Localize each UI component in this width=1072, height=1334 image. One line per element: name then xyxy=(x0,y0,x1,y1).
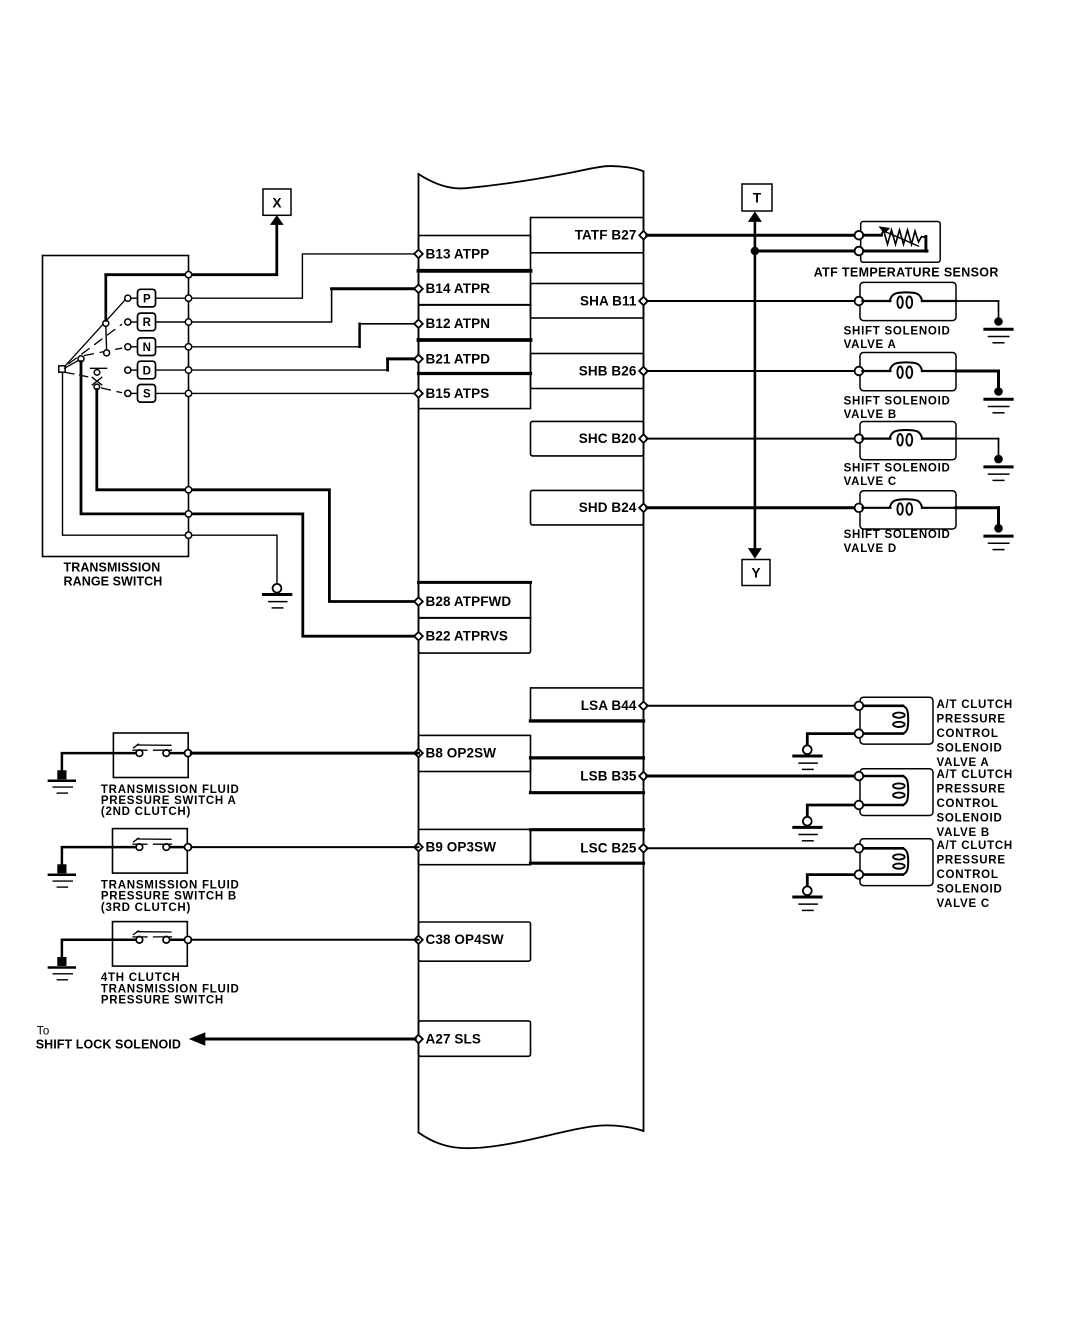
wire - switch left lead to ground xyxy=(62,847,136,864)
wire - pivot to pin B22 ATPRVS (thick) xyxy=(81,362,415,637)
callout box X xyxy=(263,189,291,215)
svg-text:VALVE D: VALVE D xyxy=(844,543,897,555)
solenoid coil A xyxy=(862,300,890,302)
svg-text:SHIFT SOLENOID: SHIFT SOLENOID xyxy=(844,529,951,541)
wire - coil B to ground xyxy=(997,371,1000,388)
wire - LSA B44 to pressure control solenoid A xyxy=(647,705,856,707)
svg-text:SHD B24: SHD B24 xyxy=(579,500,637,515)
arrowhead up into X xyxy=(270,215,284,225)
solenoid pin top xyxy=(855,844,864,853)
wire - sensor internal return xyxy=(924,237,927,252)
ground - shift solenoid valve D xyxy=(994,524,1003,533)
wire - switch to connector xyxy=(191,752,418,755)
wire - SHD B24 to shift solenoid valve D xyxy=(647,506,856,509)
D-row cross mark xyxy=(92,377,101,385)
dashed arm toward D pivot xyxy=(66,373,93,378)
(2nd clutch) xyxy=(113,733,188,778)
D-row lower contact xyxy=(94,384,100,390)
wire - SHC B20 to shift solenoid valve C xyxy=(647,438,856,440)
pin-box stack B28/B22 xyxy=(419,582,531,653)
svg-text:LSC B25: LSC B25 xyxy=(580,841,637,856)
pin box C38 OP4SW xyxy=(419,922,531,961)
range switch edge terminals xyxy=(185,272,191,278)
svg-text:VALVE A: VALVE A xyxy=(844,339,897,351)
pin box A27 SLS xyxy=(419,1021,531,1056)
sensor pin top xyxy=(855,231,864,240)
pin B15 ATPS xyxy=(414,389,423,398)
solenoid pin xyxy=(855,297,864,306)
svg-text:SHIFT SOLENOID: SHIFT SOLENOID xyxy=(844,395,951,407)
pin LSC B25 xyxy=(639,844,648,853)
solenoid coil A (vertical) xyxy=(862,704,903,707)
solenoid coil C xyxy=(862,438,890,440)
contact P xyxy=(125,295,131,301)
pin box LSA B44 bottom thick border xyxy=(531,719,644,722)
PCM connector band right edge xyxy=(643,171,645,1131)
ground - shift solenoid valve C xyxy=(994,455,1003,464)
pin SHB B26 xyxy=(639,367,648,376)
switch contacts xyxy=(170,752,187,755)
wire - coil D to ground xyxy=(997,508,1000,525)
svg-text:B14 ATPR: B14 ATPR xyxy=(426,281,491,296)
svg-text:PRESSURE: PRESSURE xyxy=(937,855,1006,867)
sensor pin bottom xyxy=(855,247,864,256)
shift solenoid valve B box xyxy=(860,353,956,391)
wire - switch to connector xyxy=(191,846,418,848)
solenoid pin bottom xyxy=(855,729,864,738)
contact D xyxy=(125,367,131,373)
ground - range switch common xyxy=(273,584,282,593)
arrowhead up into T xyxy=(748,211,762,222)
pin LSB B35 xyxy=(639,772,648,781)
solenoid coil B xyxy=(862,370,890,372)
svg-text:PRESSURE: PRESSURE xyxy=(937,713,1006,725)
wire - SHA B11 to shift solenoid valve A xyxy=(647,300,856,302)
pin SHD B24 xyxy=(639,504,648,513)
wire - P contact to pin B13 ATPP xyxy=(156,254,416,298)
svg-text:VALVE A: VALVE A xyxy=(937,757,990,769)
wire - A27 SLS to shift lock solenoid (thick) xyxy=(205,1038,416,1041)
wire - D contact to pin B21 ATPD xyxy=(156,369,388,371)
svg-text:To: To xyxy=(37,1026,50,1038)
shift solenoid valve C box xyxy=(860,422,956,460)
solenoid pin xyxy=(855,434,864,443)
pivot contact xyxy=(78,356,84,362)
range switch position box N xyxy=(138,338,156,356)
svg-text:CONTROL: CONTROL xyxy=(937,869,999,881)
ground - pressure control solenoid C xyxy=(803,886,812,895)
svg-text:SHIFT SOLENOID: SHIFT SOLENOID xyxy=(844,462,951,474)
arrowhead down into Y xyxy=(748,548,762,559)
pin box LSB B35 thick borders xyxy=(531,756,644,759)
switch arm to lower pivot xyxy=(65,360,79,368)
wire - coil C to ground xyxy=(998,439,1000,456)
switch output pin xyxy=(185,936,192,943)
svg-text:ATF TEMPERATURE SENSOR: ATF TEMPERATURE SENSOR xyxy=(814,266,999,280)
svg-text:S: S xyxy=(143,389,151,401)
switch output pin xyxy=(185,844,192,851)
ground xyxy=(57,957,66,966)
dashed arm toward R xyxy=(69,325,122,364)
svg-text:SHIFT LOCK SOLENOID: SHIFT LOCK SOLENOID xyxy=(36,1038,181,1052)
wire - TATF B27 to sensor (thick) xyxy=(647,234,856,237)
ATF temperature sensor box xyxy=(861,222,941,263)
D-row pivot contact xyxy=(94,370,100,376)
svg-text:SOLENOID: SOLENOID xyxy=(937,884,1003,896)
svg-text:TATF B27: TATF B27 xyxy=(575,228,637,243)
wire - solenoid A low side to ground xyxy=(807,734,855,746)
pin SHC B20 xyxy=(639,434,648,443)
wire - switch to connector xyxy=(191,939,418,941)
wire - common pole to ground xyxy=(63,372,278,584)
pin-box separator xyxy=(419,372,531,375)
svg-text:SOLENOID: SOLENOID xyxy=(937,813,1003,825)
pin box B9 OP3SW xyxy=(419,829,531,864)
svg-text:B9 OP3SW: B9 OP3SW xyxy=(426,840,497,855)
contact S xyxy=(125,390,131,396)
pin-box separator xyxy=(419,304,531,306)
ground - pressure control solenoid A xyxy=(803,745,812,754)
svg-text:RANGE SWITCH: RANGE SWITCH xyxy=(64,575,163,589)
switch output pin xyxy=(185,750,192,757)
thermistor resistor zigzag xyxy=(881,230,926,244)
range switch position box P xyxy=(138,289,156,307)
svg-text:P: P xyxy=(143,293,151,305)
wire - switch left lead to ground xyxy=(62,753,136,770)
B28 box top thick border xyxy=(419,581,531,584)
wire - switch left lead to ground xyxy=(62,940,136,957)
svg-text:TRANSMISSION FLUID: TRANSMISSION FLUID xyxy=(101,983,240,995)
pin box LSA B44 xyxy=(531,688,644,721)
wire - sensor return (thick) xyxy=(757,250,856,253)
contact N xyxy=(125,344,131,350)
svg-text:B21 ATPD: B21 ATPD xyxy=(426,351,491,366)
svg-text:Y: Y xyxy=(751,566,760,581)
wire - thick vertical from R pivot to top wire xyxy=(104,275,107,321)
svg-text:VALVE C: VALVE C xyxy=(937,898,990,910)
svg-text:SHB B26: SHB B26 xyxy=(579,363,637,378)
shift solenoid valve A box xyxy=(860,282,956,320)
shift solenoid valve D box xyxy=(860,491,956,529)
pin B13 ATPP xyxy=(414,250,423,259)
arrowhead to shift lock solenoid xyxy=(189,1032,206,1046)
wire - sensor return vertical T to Y xyxy=(754,223,757,548)
pin box SHA B11 xyxy=(531,284,644,319)
pin box SHC B20 xyxy=(531,421,644,456)
switch common pole xyxy=(59,366,65,372)
svg-text:D: D xyxy=(143,365,151,377)
D-row pivot tee bar xyxy=(91,367,107,369)
(3rd clutch) xyxy=(113,829,188,874)
pin LSA B44 xyxy=(639,702,648,711)
pin box B8 OP2SW xyxy=(419,735,531,771)
pin-box separator (thick) xyxy=(419,269,531,273)
dashed arm toward S xyxy=(102,388,122,393)
svg-text:PRESSURE SWITCH A: PRESSURE SWITCH A xyxy=(101,795,237,807)
svg-text:SOLENOID: SOLENOID xyxy=(937,742,1003,754)
wire - S contact to pin B15 ATPS xyxy=(156,392,416,394)
N-row pivot contact xyxy=(104,350,110,356)
ground xyxy=(57,864,66,873)
wire - LSC B25 to pressure control solenoid C xyxy=(647,847,856,849)
solenoid pin bottom xyxy=(855,801,864,810)
pin box LSB B35 xyxy=(531,758,644,793)
solenoid coil C (vertical) xyxy=(862,847,903,850)
solenoid pin bottom xyxy=(855,870,864,879)
pin box TATF B27 xyxy=(531,218,644,253)
solenoid pin xyxy=(855,367,864,376)
svg-text:X: X xyxy=(272,195,281,210)
svg-text:VALVE B: VALVE B xyxy=(937,827,990,839)
solenoid pin xyxy=(855,504,864,513)
pin A27 SLS xyxy=(414,1035,423,1044)
ground - shift solenoid valve A xyxy=(994,317,1003,326)
junction dot on return line xyxy=(751,247,759,255)
svg-text:B13 ATPP: B13 ATPP xyxy=(426,246,490,261)
svg-text:PRESSURE: PRESSURE xyxy=(937,784,1006,796)
wire - coil A to ground xyxy=(998,301,1000,318)
contact R xyxy=(125,319,131,325)
pressure switch xyxy=(113,922,188,967)
wire - R pivot to N pivot xyxy=(105,326,108,350)
svg-text:TRANSMISSION: TRANSMISSION xyxy=(64,561,161,575)
A/T clutch pressure control solenoid valve C box xyxy=(860,839,933,886)
callout box Y xyxy=(742,560,770,586)
solenoid coil D xyxy=(862,507,890,509)
wire - solenoid B low side to ground xyxy=(807,805,855,817)
wire - R contact to pin B14 ATPR xyxy=(156,290,332,322)
pin box SHB B26 xyxy=(531,354,644,389)
pin B28 ATPFWD xyxy=(414,597,423,606)
svg-text:CONTROL: CONTROL xyxy=(937,728,999,740)
svg-text:B12 ATPN: B12 ATPN xyxy=(426,316,491,331)
callout box T xyxy=(742,184,772,211)
R-row pivot contact xyxy=(103,320,109,326)
svg-text:A/T CLUTCH: A/T CLUTCH xyxy=(937,769,1014,781)
wire - X circuit (thick) from R pivot top to X box xyxy=(106,226,277,275)
wire - LSB B35 to pressure control solenoid B xyxy=(647,775,856,778)
pin B22 ATPRVS xyxy=(414,632,423,641)
A/T clutch pressure control solenoid valve A box xyxy=(860,697,933,744)
pin B8 OP2SW xyxy=(414,749,423,758)
wire - N contact to pin B12 ATPN xyxy=(156,346,360,348)
svg-text:VALVE B: VALVE B xyxy=(844,409,897,421)
ground - pressure control solenoid B xyxy=(803,817,812,826)
svg-text:B8 OP2SW: B8 OP2SW xyxy=(426,746,497,761)
svg-text:B15 ATPS: B15 ATPS xyxy=(426,386,490,401)
PCM connector band left edge xyxy=(418,174,420,1133)
pin-box separator (thick) xyxy=(419,338,531,342)
range switch position box S xyxy=(138,385,156,403)
PCM band broken-edge bottom wave xyxy=(419,1125,644,1148)
thermistor arrow xyxy=(885,232,919,247)
svg-text:SHIFT SOLENOID: SHIFT SOLENOID xyxy=(844,325,951,337)
wire - SHB B26 to shift solenoid valve B xyxy=(647,370,856,372)
svg-text:(2ND CLUTCH): (2ND CLUTCH) xyxy=(101,806,191,818)
A/T clutch pressure control solenoid valve B box xyxy=(860,769,933,816)
solenoid coil B (vertical) xyxy=(862,775,903,778)
pin B14 ATPR xyxy=(414,285,423,294)
svg-text:TRANSMISSION FLUID: TRANSMISSION FLUID xyxy=(101,784,240,796)
svg-text:T: T xyxy=(753,191,762,206)
wire - D pivot to pin B28 ATPFWD (thick) xyxy=(97,390,415,602)
solenoid pin top xyxy=(855,702,864,711)
pin TATF B27 xyxy=(639,231,648,240)
pin SHA B11 xyxy=(639,297,648,306)
switch contacts xyxy=(170,846,187,849)
svg-text:R: R xyxy=(143,317,152,329)
wire - solenoid C low side to ground xyxy=(807,875,855,887)
svg-text:B22 ATPRVS: B22 ATPRVS xyxy=(426,629,509,644)
ground xyxy=(57,770,66,779)
svg-text:A27 SLS: A27 SLS xyxy=(426,1031,481,1046)
svg-text:A/T CLUTCH: A/T CLUTCH xyxy=(937,840,1014,852)
svg-text:N: N xyxy=(143,342,151,354)
svg-text:SHC B20: SHC B20 xyxy=(579,431,637,446)
svg-text:CONTROL: CONTROL xyxy=(937,798,999,810)
switch arm to P contact xyxy=(65,300,125,366)
range switch position box R xyxy=(138,313,156,331)
pin B21 ATPD xyxy=(414,355,423,364)
wire - sensor internal top xyxy=(860,234,882,237)
svg-text:PRESSURE SWITCH B: PRESSURE SWITCH B xyxy=(101,891,237,903)
svg-text:C38 OP4SW: C38 OP4SW xyxy=(426,932,504,947)
connector pin-box stack B13/B14/B12/B21/B15 xyxy=(419,236,531,409)
PCM band broken-edge top wave xyxy=(419,166,644,188)
svg-text:(3RD CLUTCH): (3RD CLUTCH) xyxy=(101,902,191,914)
svg-text:4TH CLUTCH: 4TH CLUTCH xyxy=(101,972,181,984)
svg-text:A/T CLUTCH: A/T CLUTCH xyxy=(937,699,1014,711)
pin box LSC B25 xyxy=(531,829,644,863)
pin box SHD B24 xyxy=(531,490,644,525)
svg-text:PRESSURE SWITCH: PRESSURE SWITCH xyxy=(101,995,224,1007)
dashed arm toward N xyxy=(85,348,122,355)
svg-text:B28 ATPFWD: B28 ATPFWD xyxy=(426,594,512,609)
pin B9 OP3SW xyxy=(414,843,423,852)
range switch position box D xyxy=(138,361,156,379)
solenoid pin top xyxy=(855,772,864,781)
ground - shift solenoid valve B xyxy=(994,387,1003,396)
transmission range switch box xyxy=(43,256,189,557)
svg-text:TRANSMISSION FLUID: TRANSMISSION FLUID xyxy=(101,880,240,892)
pin-box separator B28/B22 xyxy=(419,617,531,619)
pin B12 ATPN xyxy=(414,320,423,329)
svg-text:VALVE C: VALVE C xyxy=(844,476,897,488)
switch contacts xyxy=(170,939,187,942)
svg-text:LSB B35: LSB B35 xyxy=(580,768,637,783)
pin box LSC B25 thick borders xyxy=(531,828,644,831)
svg-text:SHA B11: SHA B11 xyxy=(580,293,637,308)
pin C38 OP4SW xyxy=(414,936,423,945)
svg-text:LSA B44: LSA B44 xyxy=(581,698,637,713)
